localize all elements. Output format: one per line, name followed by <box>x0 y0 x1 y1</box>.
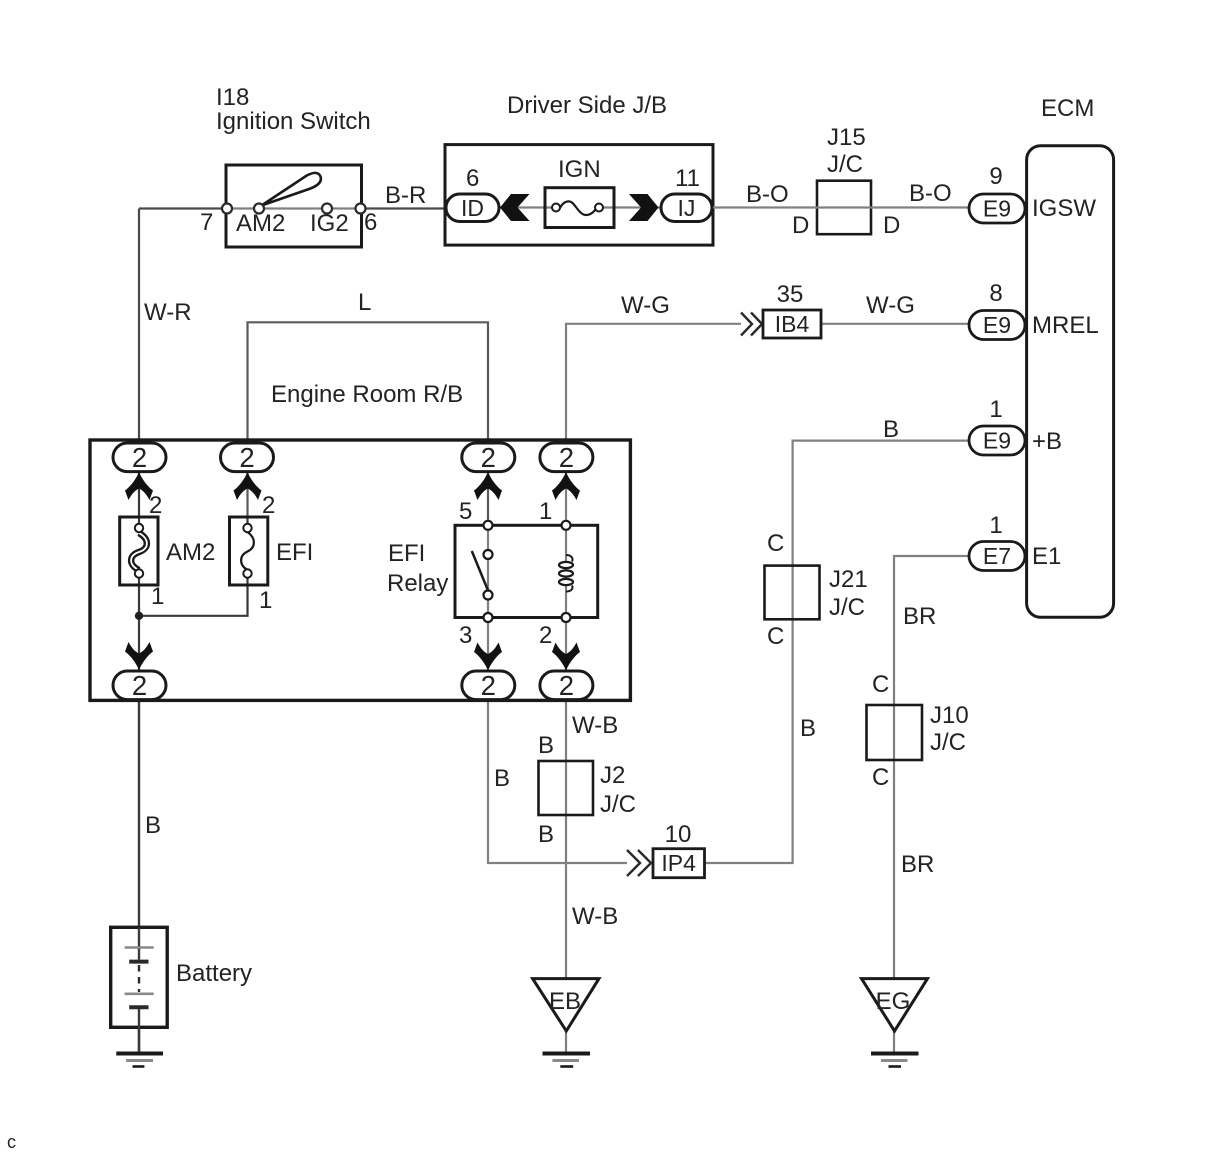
svg-text:J21: J21 <box>829 566 868 593</box>
svg-text:E1: E1 <box>1032 543 1061 570</box>
svg-text:IP4: IP4 <box>661 850 696 876</box>
connector E9 pin 9 IGSW oval <box>969 194 1025 223</box>
svg-text:Ignition Switch: Ignition Switch <box>216 108 371 135</box>
label ECM <box>1041 95 1094 122</box>
connector E7 pin 1 E1 oval <box>969 542 1025 571</box>
label relay pin 3 <box>459 622 472 649</box>
label C above J10 <box>872 671 889 698</box>
svg-text:IGSW: IGSW <box>1032 195 1096 222</box>
ignition switch I18 box <box>226 165 362 247</box>
label J10 <box>930 702 969 729</box>
connector ID oval (pin 6) <box>446 194 499 222</box>
label W-B top <box>572 712 618 739</box>
label pin 10 above IP4 <box>665 821 692 848</box>
label Battery <box>176 960 252 987</box>
svg-text:2: 2 <box>132 442 147 473</box>
svg-text:IGN: IGN <box>558 156 601 183</box>
label B above J2 <box>538 732 554 759</box>
svg-text:11: 11 <box>675 165 700 192</box>
svg-text:1: 1 <box>539 498 552 525</box>
svg-text:E9: E9 <box>983 428 1011 454</box>
arrow up relay pin 5 column <box>474 472 502 500</box>
connector IB4 chevrons <box>741 313 762 336</box>
svg-text:J/C: J/C <box>930 729 966 756</box>
svg-text:IB4: IB4 <box>775 311 810 337</box>
svg-text:J/C: J/C <box>600 791 636 818</box>
svg-text:2: 2 <box>559 670 574 701</box>
connector oval 2 top of relay pin 1 <box>540 442 593 473</box>
label +B <box>1032 428 1062 455</box>
arrow down relay pin 2 column <box>552 643 580 671</box>
label W-R <box>144 299 192 326</box>
label J2 <box>600 762 625 789</box>
svg-text:1: 1 <box>151 583 164 610</box>
svg-text:Battery: Battery <box>176 960 252 987</box>
label relay pin 1 <box>539 498 552 525</box>
svg-text:2: 2 <box>481 670 496 701</box>
wire battery column B from R/B bottom to battery and ground <box>138 700 140 1052</box>
ignition switch terminal pins <box>222 204 366 214</box>
label J/C of J2 <box>600 791 636 818</box>
svg-text:C: C <box>767 530 784 557</box>
wire W-G from relay coil pin 1 to IB4 and ECM MREL <box>566 324 969 526</box>
svg-text:J10: J10 <box>930 702 969 729</box>
label W-B bottom <box>572 903 618 930</box>
svg-text:C: C <box>767 623 784 650</box>
label EFI Relay <box>387 540 448 597</box>
connector oval 2 bottom relay pin 3 <box>462 670 515 701</box>
svg-text:J15: J15 <box>827 124 866 151</box>
label D right of J15 <box>883 212 900 239</box>
junction J15 J/C box <box>713 181 969 235</box>
svg-text:1: 1 <box>989 396 1002 423</box>
arrow up AM2 column <box>125 472 153 500</box>
label B below J21 <box>800 715 816 742</box>
node junction dot at AM2/EFI link <box>135 612 143 620</box>
connector oval 2 top of AM2 fuse <box>113 442 166 473</box>
label B wire to +B <box>883 416 899 443</box>
svg-text:2: 2 <box>132 670 147 701</box>
svg-text:7: 7 <box>200 209 213 236</box>
svg-text:BR: BR <box>903 603 936 630</box>
svg-text:C: C <box>872 764 889 791</box>
arrow down AM2 column to battery <box>125 642 153 670</box>
svg-text:J2: J2 <box>600 762 625 789</box>
label pin 8 above E9 MREL <box>989 280 1002 307</box>
svg-text:L: L <box>358 289 371 316</box>
wire AM2 fuse column inside R/B <box>138 440 140 700</box>
Engine Room R/B box <box>90 440 630 700</box>
wire EFI fuse column and L wire to relay pin 5 <box>248 322 489 585</box>
connector IP4 box (pin 10) <box>653 849 705 878</box>
wire IP4 to J21 column up to ECM +B <box>705 441 970 863</box>
svg-text:J/C: J/C <box>827 151 863 178</box>
connector oval 2 bottom relay pin 2 <box>540 670 593 701</box>
svg-text:AM2: AM2 <box>166 539 215 566</box>
svg-text:B: B <box>538 821 554 848</box>
svg-text:2: 2 <box>559 442 574 473</box>
svg-text:B-R: B-R <box>385 182 426 209</box>
wire junction link AM2 pin1 to EFI pin1 <box>139 585 248 616</box>
label J/C of J10 <box>930 729 966 756</box>
svg-text:AM2: AM2 <box>236 210 285 237</box>
label c page marker <box>7 1132 16 1152</box>
label J15 <box>827 124 866 151</box>
battery internal plates <box>125 927 154 1052</box>
svg-text:Relay: Relay <box>387 570 448 597</box>
label pin 1 above E7 <box>989 512 1002 539</box>
label pin 1 above E9 +B <box>989 396 1002 423</box>
svg-text:1: 1 <box>989 512 1002 539</box>
svg-text:E7: E7 <box>983 543 1011 569</box>
svg-text:W-G: W-G <box>866 292 915 319</box>
svg-text:ECM: ECM <box>1041 95 1094 122</box>
wire EB triangle to ground symbol <box>565 1031 567 1052</box>
relay switch contacts and lever <box>472 550 493 600</box>
arrow up EFI column <box>234 472 262 500</box>
label pin 9 above E9 <box>989 163 1002 190</box>
connector oval 2 top of relay pin 5 <box>462 442 515 473</box>
svg-text:MREL: MREL <box>1032 312 1099 339</box>
svg-text:C: C <box>872 671 889 698</box>
label EFI fuse <box>276 539 313 566</box>
label E1 <box>1032 543 1061 570</box>
label C below J21 <box>767 623 784 650</box>
connector E9 pin 1 +B oval <box>969 426 1025 455</box>
label BR below J10 <box>901 851 934 878</box>
arrow up relay pin 1 column <box>552 472 580 500</box>
label I18 <box>216 84 249 111</box>
label J21 <box>829 566 868 593</box>
wire W-R vertical from ignition switch pin 7 down to Engine Room R/B <box>139 209 445 441</box>
relay pin circles <box>484 521 571 622</box>
fuse EFI box <box>230 517 268 585</box>
label IG2 terminal <box>310 210 349 237</box>
svg-text:W-B: W-B <box>572 903 618 930</box>
label IGSW <box>1032 195 1096 222</box>
svg-text:Driver Side J/B: Driver Side J/B <box>507 92 667 119</box>
ground symbol below EB <box>543 1054 591 1067</box>
svg-text:Engine Room R/B: Engine Room R/B <box>271 381 463 408</box>
svg-text:B-O: B-O <box>746 181 789 208</box>
junction J10 J/C box <box>867 705 923 760</box>
label MREL <box>1032 312 1099 339</box>
svg-text:1: 1 <box>259 587 272 614</box>
label pin 1 below EFI fuse <box>259 587 272 614</box>
label B-O left of J15 <box>746 181 789 208</box>
label pin 6 above ID <box>466 165 479 192</box>
label D left of J15 <box>792 212 809 239</box>
wire BR from ECM E1 through J10 to EG ground <box>894 556 969 1052</box>
svg-text:2: 2 <box>149 492 162 519</box>
label BR above J10 <box>903 603 936 630</box>
label Engine Room R/B <box>271 381 463 408</box>
label J/C of J15 <box>827 151 863 178</box>
wire relay switch column pins 5-3 down to IP4 row <box>488 525 627 863</box>
ground symbol below battery <box>116 1054 163 1067</box>
svg-text:9: 9 <box>989 163 1002 190</box>
wire W-B relay coil pin 2 column down through J2 to EB ground <box>565 525 567 978</box>
junction J21 J/C box <box>765 566 820 620</box>
label B battery wire <box>145 812 161 839</box>
svg-text:I18: I18 <box>216 84 249 111</box>
label C above J21 <box>767 530 784 557</box>
label W-G right <box>866 292 915 319</box>
svg-text:B: B <box>538 732 554 759</box>
label W-G left <box>621 292 670 319</box>
connector oval 2 bottom battery column <box>113 670 166 701</box>
label C below J10 <box>872 764 889 791</box>
svg-text:35: 35 <box>777 281 804 308</box>
svg-text:E9: E9 <box>983 312 1011 338</box>
svg-text:10: 10 <box>665 821 692 848</box>
svg-text:W-G: W-G <box>621 292 670 319</box>
svg-text:E9: E9 <box>983 196 1011 222</box>
ground triangle EB <box>533 979 599 1031</box>
svg-text:EG: EG <box>876 988 911 1015</box>
arrow left into ID <box>500 194 530 221</box>
label B-O right of J15 <box>909 180 952 207</box>
svg-text:D: D <box>883 212 900 239</box>
svg-text:B: B <box>494 765 510 792</box>
svg-text:6: 6 <box>466 165 479 192</box>
label B left wire relay pin3 <box>494 765 510 792</box>
ground triangle EG <box>862 979 928 1031</box>
svg-text:B: B <box>145 812 161 839</box>
junction J2 J/C box <box>539 761 594 815</box>
label Driver Side J/B <box>507 92 667 119</box>
label AM2 fuse <box>166 539 215 566</box>
arrow down relay pin 3 column <box>474 643 502 671</box>
svg-text:B: B <box>883 416 899 443</box>
label AM2 terminal <box>236 210 285 237</box>
fuse IGN box <box>545 188 614 228</box>
svg-text:3: 3 <box>459 622 472 649</box>
svg-text:B-O: B-O <box>909 180 952 207</box>
label pin 1 below AM2 fuse <box>151 583 164 610</box>
svg-text:EFI: EFI <box>388 540 425 567</box>
svg-text:8: 8 <box>989 280 1002 307</box>
connector oval 2 top of EFI fuse <box>221 442 274 473</box>
fuse AM2 box <box>120 517 158 585</box>
label J/C of J21 <box>829 594 865 621</box>
label L <box>358 289 371 316</box>
svg-text:EB: EB <box>549 988 581 1015</box>
svg-text:D: D <box>792 212 809 239</box>
svg-text:IG2: IG2 <box>310 210 349 237</box>
connector IJ oval (pin 11) <box>661 194 712 222</box>
svg-text:2: 2 <box>539 622 552 649</box>
svg-text:+B: +B <box>1032 428 1062 455</box>
Driver Side J/B box <box>445 145 713 246</box>
svg-text:5: 5 <box>459 498 472 525</box>
label relay pin 5 <box>459 498 472 525</box>
ignition switch lever blade <box>262 173 321 206</box>
svg-text:IJ: IJ <box>678 195 696 221</box>
svg-text:6: 6 <box>364 209 377 236</box>
label pin 2 of EFI fuse <box>262 492 275 519</box>
arrow right into IJ <box>629 194 659 221</box>
connector IB4 box (pin 35) <box>763 310 821 338</box>
label relay pin 2 <box>539 622 552 649</box>
battery box <box>111 927 168 1027</box>
svg-text:c: c <box>7 1132 16 1152</box>
svg-text:J/C: J/C <box>829 594 865 621</box>
connector E9 pin 8 MREL oval <box>969 311 1025 340</box>
relay EFI Relay box <box>455 525 598 617</box>
svg-text:EFI: EFI <box>276 539 313 566</box>
label pin 6 right of ignition box <box>364 209 377 236</box>
svg-text:ID: ID <box>461 195 484 221</box>
label B below J2 <box>538 821 554 848</box>
ground symbol below EG <box>871 1054 919 1067</box>
label IGN <box>558 156 601 183</box>
label Ignition Switch <box>216 108 371 135</box>
svg-text:W-R: W-R <box>144 299 192 326</box>
svg-text:2: 2 <box>262 492 275 519</box>
svg-text:W-B: W-B <box>572 712 618 739</box>
connector IP4 chevrons <box>627 850 651 876</box>
svg-text:2: 2 <box>481 442 496 473</box>
ECM box <box>1027 146 1114 618</box>
svg-text:2: 2 <box>239 442 254 473</box>
label pin 2 of AM2 fuse <box>149 492 162 519</box>
label pin 7 <box>200 209 213 236</box>
label B-R <box>385 182 426 209</box>
svg-text:B: B <box>800 715 816 742</box>
label pin 35 above IB4 <box>777 281 804 308</box>
label pin 11 above IJ <box>675 165 700 192</box>
relay coil <box>559 555 573 592</box>
svg-text:BR: BR <box>901 851 934 878</box>
